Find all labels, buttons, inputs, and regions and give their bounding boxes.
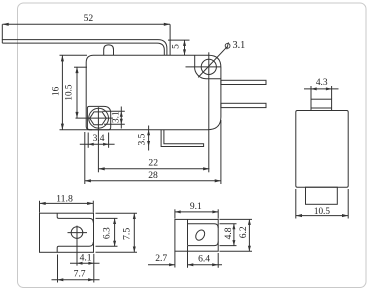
svg-text:11.8: 11.8: [56, 194, 73, 205]
svg-text:28: 28: [148, 170, 158, 181]
svg-text:6.2: 6.2: [238, 226, 249, 238]
svg-text:16: 16: [50, 86, 60, 96]
svg-text:7.5: 7.5: [122, 228, 133, 240]
svg-text:4.1: 4.1: [80, 252, 92, 263]
svg-text:6.3: 6.3: [103, 227, 113, 239]
svg-text:52: 52: [84, 13, 94, 24]
svg-text:6.4: 6.4: [198, 254, 210, 265]
svg-text:9.1: 9.1: [190, 202, 202, 212]
svg-text:7.7: 7.7: [74, 269, 86, 280]
svg-text:3.1: 3.1: [233, 40, 246, 51]
svg-text:5: 5: [171, 44, 182, 49]
svg-text:3.4: 3.4: [93, 134, 105, 144]
svg-text:10.5: 10.5: [314, 206, 330, 216]
svg-text:4.8: 4.8: [223, 227, 234, 239]
svg-text:2.7: 2.7: [155, 253, 167, 264]
svg-text:3.1: 3.1: [111, 111, 121, 123]
svg-text:22: 22: [148, 158, 158, 169]
svg-text:10.5: 10.5: [64, 84, 74, 100]
svg-text:3.5: 3.5: [138, 133, 148, 145]
svg-text:4.3: 4.3: [316, 78, 328, 88]
